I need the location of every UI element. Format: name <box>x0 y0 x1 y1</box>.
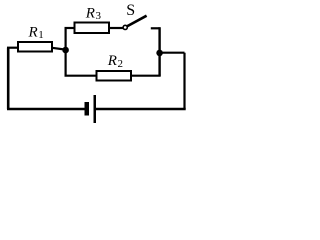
svg-text:R: R <box>107 53 117 69</box>
resistor R1 <box>18 42 52 52</box>
wire top branch to R3 <box>65 27 76 29</box>
switch S pivot <box>123 25 127 29</box>
node junction dot B <box>156 50 163 57</box>
svg-text:R: R <box>28 24 38 40</box>
wire R2 left lead <box>65 75 98 77</box>
wire middle vertical <box>64 28 66 76</box>
wire R3 to switch <box>109 27 123 29</box>
svg-text:2: 2 <box>118 58 124 70</box>
wire right inner vertical <box>158 27 160 75</box>
resistor R3 <box>75 23 110 34</box>
wire switch right contact <box>151 27 160 29</box>
wire left vertical <box>7 48 10 109</box>
battery positive plate <box>94 95 97 123</box>
svg-text:S: S <box>126 2 135 19</box>
wire R1 left lead <box>7 47 18 49</box>
wire R1 right lead <box>52 48 66 50</box>
wire node B to right edge <box>160 52 185 54</box>
wire bottom right <box>96 108 186 110</box>
switch S blade <box>127 16 146 27</box>
svg-text:3: 3 <box>96 10 102 22</box>
wire right vertical <box>183 53 185 109</box>
svg-text:1: 1 <box>38 29 44 41</box>
resistor R2 <box>97 71 132 81</box>
wire R2 right lead <box>131 75 161 77</box>
node junction dot A <box>62 47 69 54</box>
svg-text:R: R <box>85 5 95 21</box>
battery negative plate <box>85 102 90 116</box>
wire bottom left <box>7 108 85 110</box>
